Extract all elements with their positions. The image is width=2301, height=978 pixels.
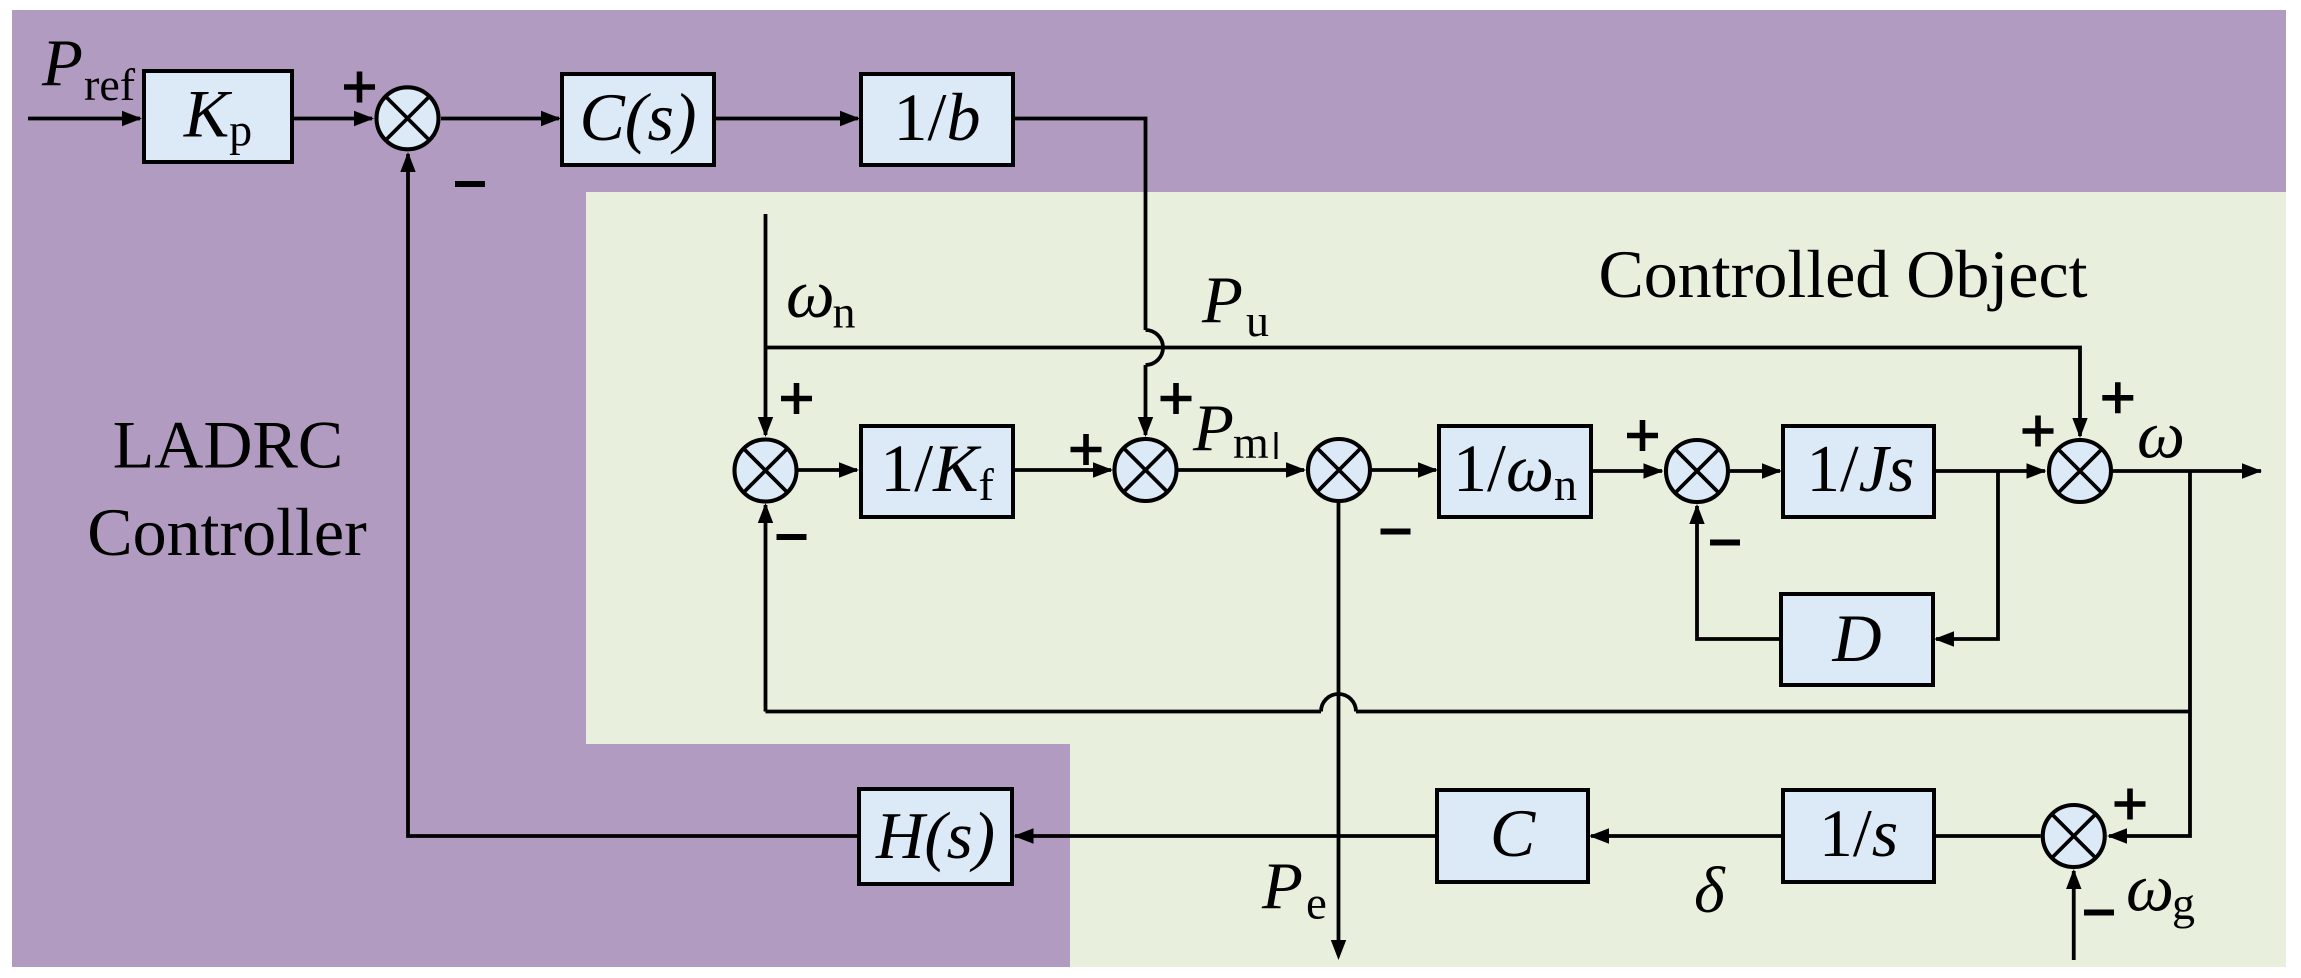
svg-text:m: m <box>1233 417 1269 468</box>
svg-text:1/Kf: 1/Kf <box>880 430 994 510</box>
svg-text:P: P <box>1201 263 1243 337</box>
svg-text:δ: δ <box>1694 854 1726 927</box>
svg-text:u: u <box>1246 295 1269 346</box>
svg-text:n: n <box>833 287 856 338</box>
svg-text:D: D <box>1831 600 1881 676</box>
svg-text:ω: ω <box>2137 397 2185 473</box>
svg-text:P: P <box>41 26 83 100</box>
svg-text:Controlled Object: Controlled Object <box>1598 236 2087 312</box>
svg-text:g: g <box>2172 878 2195 929</box>
svg-text:LADRC: LADRC <box>113 407 343 483</box>
svg-text:ω: ω <box>786 256 835 332</box>
svg-text:ref: ref <box>84 59 136 110</box>
svg-text:H(s): H(s) <box>875 799 995 873</box>
svg-text:ω: ω <box>2126 850 2174 926</box>
svg-text:C(s): C(s) <box>579 79 696 155</box>
svg-text:P: P <box>1261 849 1303 923</box>
svg-text:1/Js: 1/Js <box>1807 432 1915 506</box>
svg-text:C: C <box>1490 795 1536 871</box>
svg-text:1/s: 1/s <box>1819 795 1898 871</box>
svg-text:1/b: 1/b <box>894 79 981 155</box>
svg-text:Controller: Controller <box>87 494 367 570</box>
svg-text:e: e <box>1306 878 1327 930</box>
svg-text:P: P <box>1192 391 1234 465</box>
